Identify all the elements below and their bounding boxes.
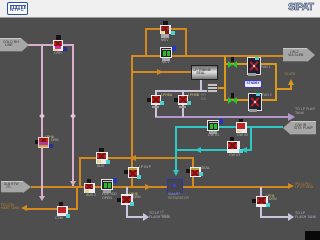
cyan arrow down into box [173, 170, 179, 176]
header end arrow right [288, 183, 294, 189]
wire: big vertical x=131 from top line to main header [131, 55, 133, 187]
lower line arrow left tip [21, 205, 27, 211]
label text PRDS [201, 94, 206, 102]
label: AUX STM (left, y=186) [1, 181, 23, 193]
wire: branch y=72 to seal box [131, 71, 191, 73]
label: C/W IN SITE PUMP (points left) [291, 121, 316, 135]
wire: cold RH horizontal y=45 [28, 44, 74, 46]
wire: lavender vertical from seal box x=201 [200, 78, 202, 91]
component: small PRDS box [207, 83, 218, 93]
component: fan 2 [248, 93, 262, 111]
pink arrow down at bottom of x=41.5 [39, 196, 45, 201]
valve on x=133 vertical [124, 170, 128, 174]
wire: vertical x=193 (158->186) [192, 157, 194, 187]
wire: drop x=126.5 [126, 187, 128, 217]
cyan flow arrow left on y=150 near x=198 [195, 147, 201, 153]
green valve on header x=102 [101, 179, 113, 190]
wire: bypass top horizontal y=29 [145, 28, 187, 30]
valve V2 (bypass main, open green) [160, 47, 172, 58]
wire: fan bottom branch y=100 [224, 99, 277, 101]
wire: pink vertical x=73 [72, 45, 74, 186]
component: green valve top [231, 57, 234, 62]
wire: sub-header y=158 [79, 157, 194, 159]
wire: lavender vertical x=183 [182, 90, 184, 117]
wire: bypass up vertical x=146 [145, 29, 147, 57]
label text TO LP FLASH TANK (right drop) [295, 212, 316, 220]
component: fan 1 [247, 57, 261, 75]
pink arrow down into header at x=73 [70, 181, 76, 186]
green valve on cyan y=127 [207, 120, 219, 131]
label text TO CTM [1, 204, 19, 212]
component: LP turbine seal box [191, 65, 218, 80]
red valve on cyan y=150 [230, 137, 234, 141]
valve on header x=84-95 [87, 179, 91, 183]
valve on y=158 line [99, 148, 104, 153]
valve on cold RH line [56, 35, 61, 40]
cyan flow arrow left on y=150 near x=243 [241, 147, 247, 153]
red valve on cyan y=127 [239, 119, 243, 123]
wire: bypass down vertical x=186 [185, 28, 187, 57]
wire: cyan y=150 [175, 149, 252, 151]
flow arrow on y=72 branch [157, 69, 163, 75]
label text TO ATB [284, 73, 295, 77]
label text separator name [168, 193, 189, 201]
valve on lavender drop x=261 [252, 199, 256, 203]
valve on pink line x=41.5 [38, 137, 49, 148]
valve LPH5 on lavender drop x=126.5 [117, 198, 121, 202]
component: separator box [167, 179, 183, 193]
wire: cyan vertical x=176 [175, 126, 177, 170]
wire: y=217 right to arrow [260, 216, 289, 218]
wire: violet horizontal y=117 [155, 116, 289, 118]
wire: drop x=76 to lower line [76, 187, 78, 209]
header bar [0, 0, 320, 18]
wire: tap to ATB [275, 88, 291, 90]
valve V1 (bypass top, closed) [163, 21, 168, 25]
wire: fan top branch y=64 [224, 63, 277, 65]
label text IP-LP seal (header end) [295, 183, 314, 191]
NTPC logo [7, 2, 28, 15]
flow arrow on header mid [145, 184, 151, 190]
black corner box bottom-right [305, 231, 320, 240]
label: LIN-2 VIA SLEB [283, 48, 307, 62]
label text LP TANK [160, 211, 169, 219]
valve LPH A on lavender x=156 [147, 98, 151, 102]
wire: pink vertical x=41.5 [41, 45, 43, 197]
wire: lower line y=208 [27, 208, 78, 210]
wire: lavender horizontal y=90 [155, 90, 207, 92]
pink diamond x=73 y=115 [70, 113, 76, 119]
label text TO LP FLASH TANK (violet line) [295, 108, 315, 116]
wire: y=217 to arrow [126, 216, 144, 218]
valve LPH B on lavender x=183 [174, 98, 178, 102]
wire: cyan vertical x=251 [250, 126, 252, 151]
wire: main header y=186 [31, 186, 289, 188]
wire: lavender vertical x=156 [155, 90, 157, 117]
valve on x=193 vertical [186, 169, 190, 173]
wire: main top line y=56 [131, 55, 283, 57]
wire: stub small box to fan vertical [216, 87, 225, 89]
wire: fan left vertical x=225 [224, 56, 226, 101]
flow arrow on y=158 [130, 155, 136, 161]
label: COLD RH LINE [0, 38, 21, 52]
component: green valve bottom [231, 93, 234, 98]
pink diamond x=41.5 y=115 [39, 113, 45, 119]
SIPAT title [288, 2, 320, 13]
valve on lower line x=57-68 [59, 202, 63, 206]
wire: drop x=261 [260, 187, 262, 217]
wire: vertical x=80 (158->186) [79, 157, 81, 187]
label text TO LP FLASH TANK (left drop) [149, 212, 170, 220]
wire: cyan y=127 [175, 126, 283, 128]
wire: fan right vertical x=276 [275, 63, 277, 101]
component: STNDBY tag [244, 80, 262, 88]
violet arrow tip [288, 113, 295, 121]
